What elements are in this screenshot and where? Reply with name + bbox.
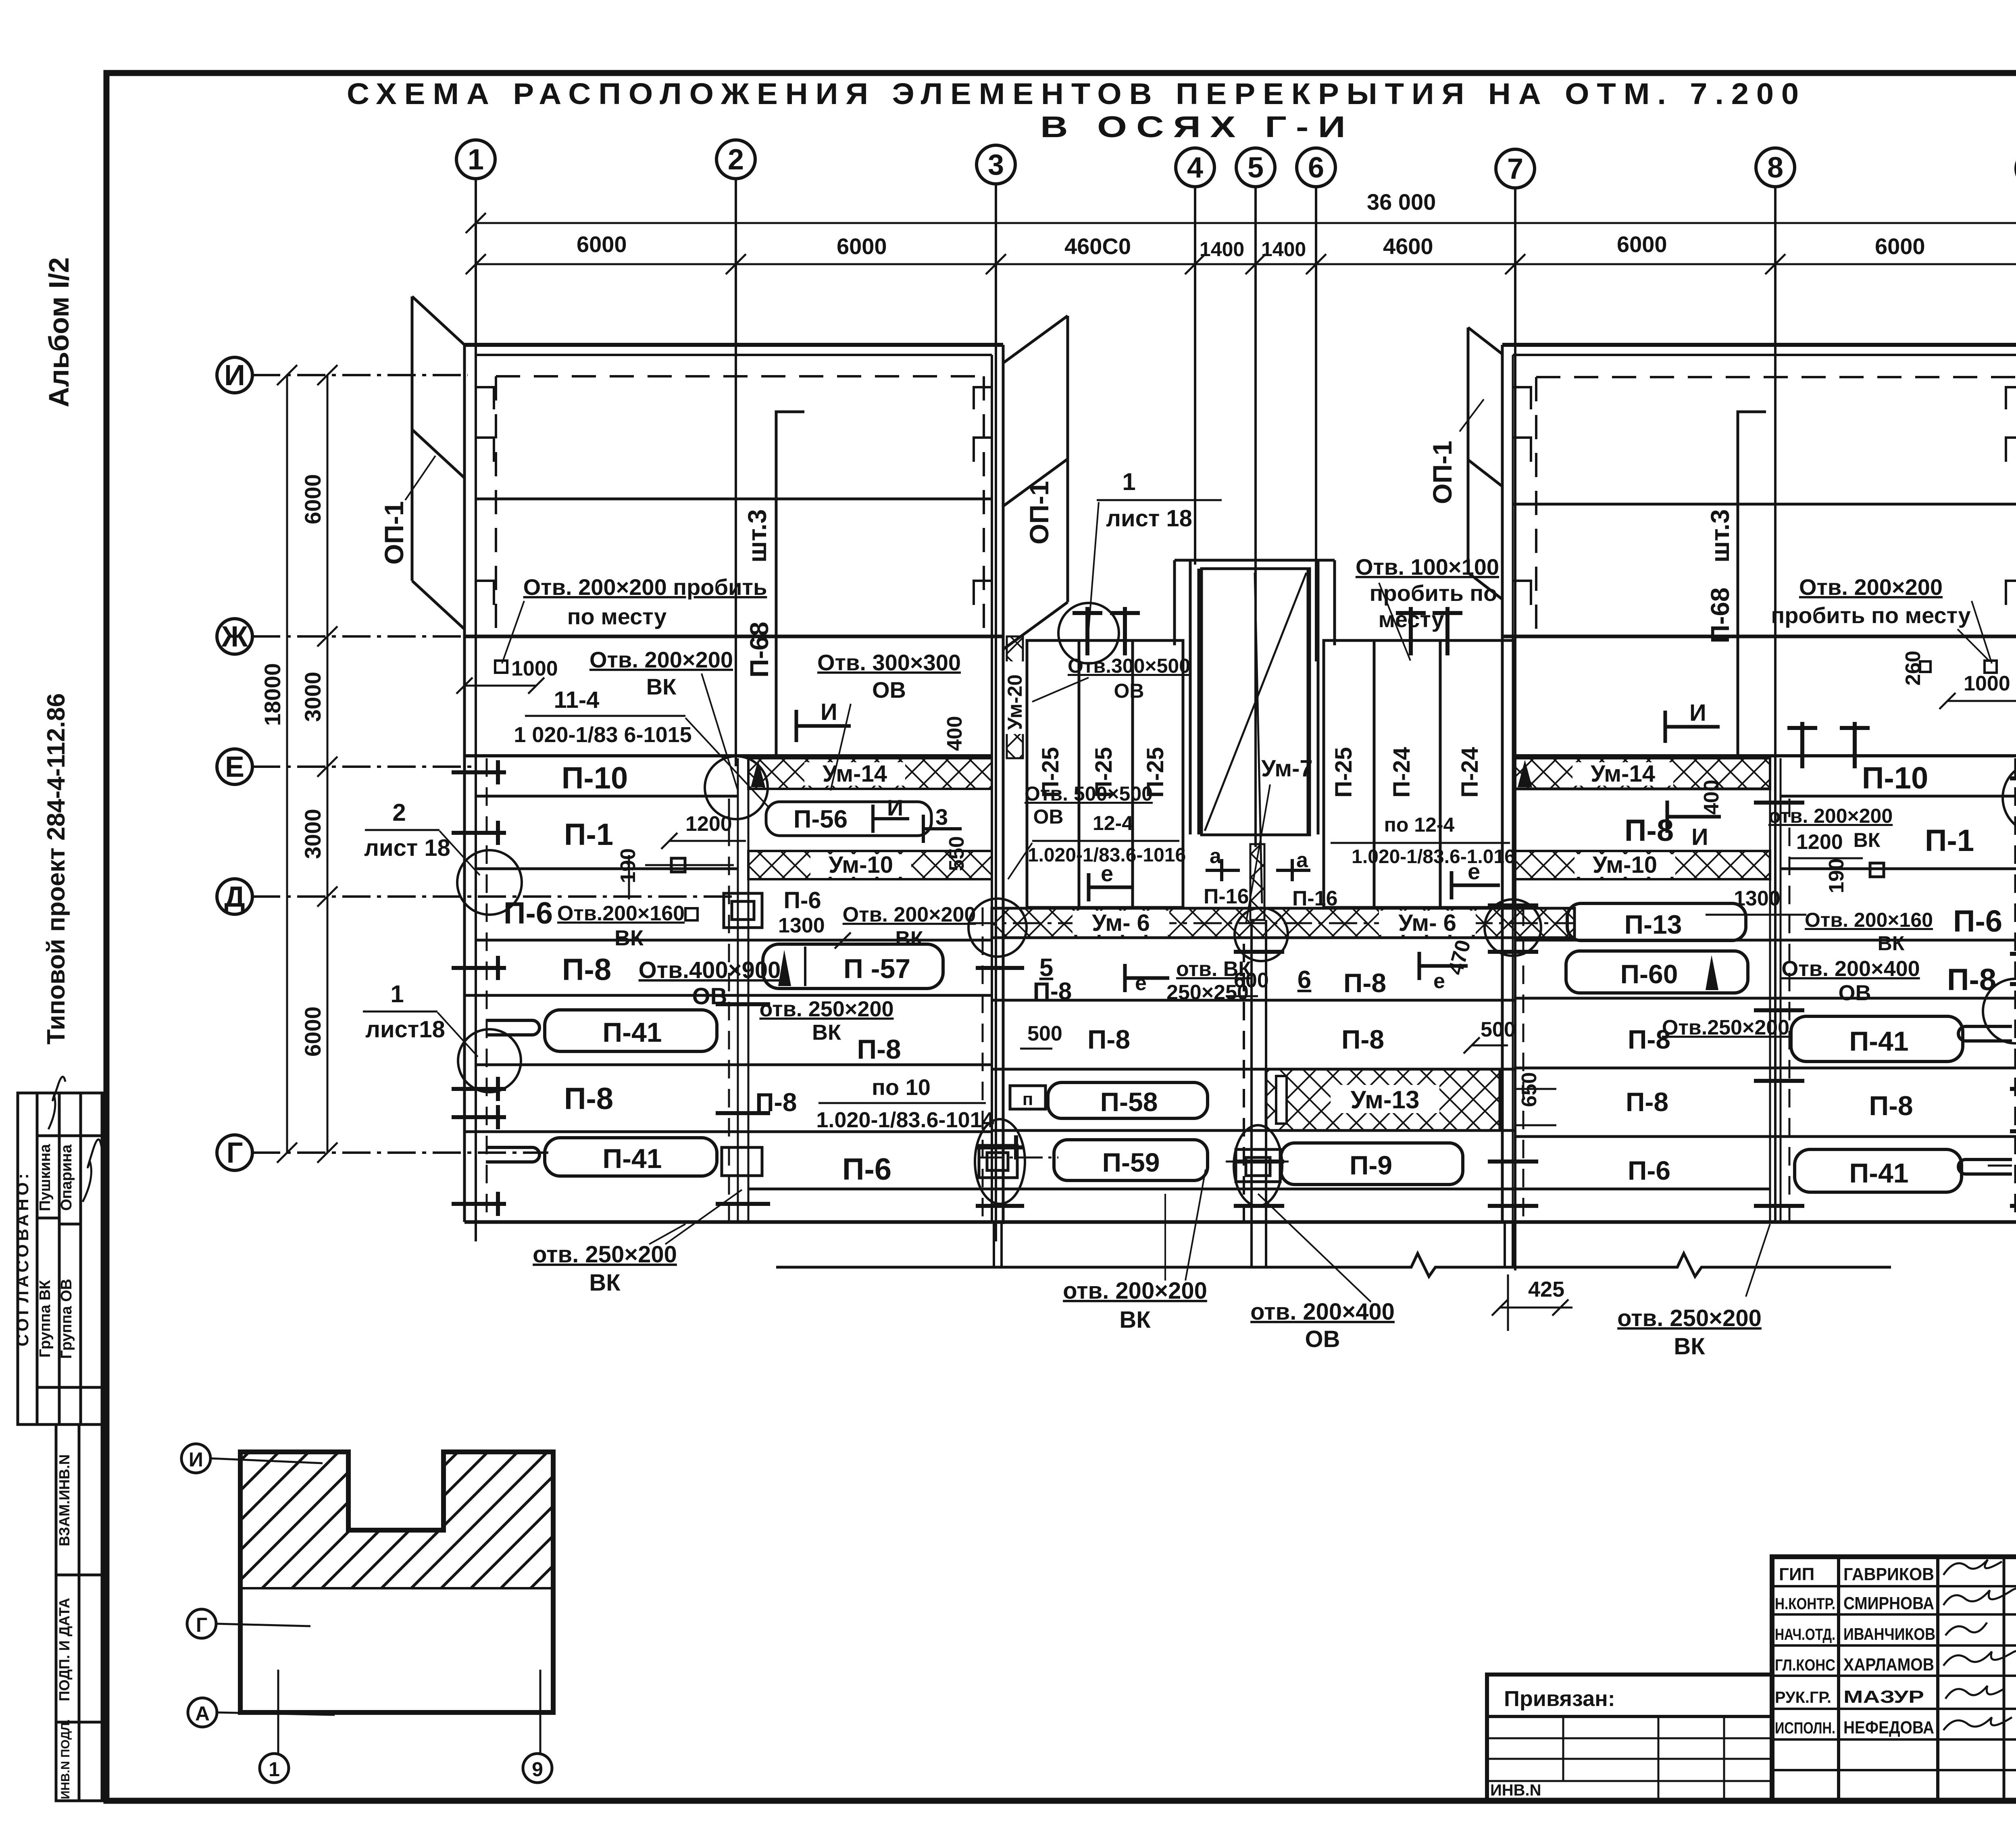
svg-text:6000: 6000	[577, 231, 627, 257]
section mark И left	[796, 710, 851, 742]
detail circle at axis7 Ум-6	[1485, 899, 1541, 956]
svg-text:1400: 1400	[1261, 238, 1306, 261]
svg-text:п: п	[1023, 1089, 1033, 1109]
axis 7 line	[1514, 188, 1516, 1270]
svg-text:П-10: П-10	[562, 761, 628, 795]
svg-text:НЕФЕДОВА: НЕФЕДОВА	[1843, 1718, 1934, 1737]
svg-text:И: И	[821, 699, 837, 725]
name columns	[1837, 1557, 1840, 1801]
svg-text:ОП-1: ОП-1	[1427, 441, 1457, 504]
wall top double	[1502, 343, 2016, 347]
П-68 divider vertical	[1738, 412, 1766, 758]
svg-text:2: 2	[392, 799, 406, 826]
svg-text:И: И	[887, 795, 903, 820]
svg-text:ОВ: ОВ	[1305, 1326, 1340, 1352]
svg-text:Г: Г	[227, 1137, 243, 1169]
axis circle Е	[217, 749, 252, 784]
svg-text:А: А	[195, 1702, 210, 1725]
svg-text:отв. 250×200: отв. 250×200	[533, 1241, 677, 1268]
monolithic strip Ум-10 right	[1515, 851, 1770, 879]
axis Е line	[252, 765, 472, 768]
svg-text:Ум-14: Ум-14	[1591, 761, 1655, 787]
svg-text:Привязан:: Привязан:	[1504, 1687, 1615, 1711]
svg-text:МАЗУР: МАЗУР	[1843, 1687, 1924, 1707]
svg-text:6000: 6000	[837, 234, 887, 259]
svg-text:П-41: П-41	[1849, 1026, 1908, 1057]
opening panel ОП-1 left flap of right wing	[1468, 327, 1502, 599]
overall dimension line 36000	[466, 213, 2016, 233]
svg-text:Отв. 200×160: Отв. 200×160	[1805, 909, 1933, 931]
svg-text:Отв. 200×200: Отв. 200×200	[1799, 574, 1943, 600]
svg-text:Отв. 200×200: Отв. 200×200	[843, 903, 976, 926]
svg-text:1.020-1/83.6-1.016: 1.020-1/83.6-1.016	[1352, 846, 1515, 868]
name rows	[1772, 1585, 2016, 1587]
svg-text:Отв. 200×200: Отв. 200×200	[589, 647, 733, 672]
panel П-60 box	[1566, 951, 1748, 993]
svg-text:П-10: П-10	[1862, 761, 1928, 795]
detail circle at axis1 П-41	[458, 1029, 521, 1092]
svg-text:ВК: ВК	[895, 927, 923, 951]
svg-text:ГАВРИКОВ: ГАВРИКОВ	[1843, 1564, 1934, 1584]
svg-text:И: И	[224, 359, 245, 392]
svg-text:шт.3: шт.3	[743, 509, 772, 563]
vertical segment dimension line	[317, 365, 337, 1163]
svg-text:П-58: П-58	[1100, 1087, 1158, 1117]
axis circle 6	[1297, 148, 1335, 187]
attachment box	[1487, 1675, 1772, 1801]
axis circle 4	[1176, 148, 1214, 187]
svg-text:ГЛ.КОНС: ГЛ.КОНС	[1775, 1656, 1835, 1674]
monolithic strip Ум-6 band	[992, 908, 1574, 938]
wall axis8 double dashed	[1770, 758, 1789, 1222]
svg-text:по 12-4: по 12-4	[1384, 813, 1455, 836]
axis 1 line	[475, 179, 477, 1241]
svg-text:Ум- 6: Ум- 6	[1092, 910, 1150, 936]
svg-text:6000: 6000	[300, 1006, 325, 1057]
detail circle at axis9 П-10	[2003, 762, 2016, 833]
svg-text:1: 1	[468, 144, 484, 176]
left margin lower boxes	[56, 1424, 102, 1801]
svg-text:12-4: 12-4	[1093, 812, 1133, 834]
svg-text:ВК: ВК	[1119, 1307, 1151, 1333]
joint boxes axis2	[722, 893, 762, 1176]
axis circle 5	[1236, 148, 1275, 187]
svg-text:ВК: ВК	[1854, 829, 1881, 851]
svg-text:НАЧ.ОТД.: НАЧ.ОТД.	[1775, 1626, 1835, 1643]
section mark 3 at П-56	[923, 815, 962, 843]
svg-text:ИНВ.N ПОДЛ.: ИНВ.N ПОДЛ.	[59, 1719, 72, 1800]
slab П-16 right + section mark a	[1276, 859, 1310, 881]
axis Г line	[252, 1151, 548, 1154]
key plan axis circle И	[181, 1444, 210, 1473]
svg-text:4: 4	[1187, 152, 1203, 184]
key plan outline	[240, 1452, 553, 1712]
svg-text:СОГЛАСОВАНО:: СОГЛАСОВАНО:	[13, 1170, 32, 1347]
svg-text:П-8: П-8	[1033, 978, 1072, 1005]
svg-text:Отв.250×200: Отв.250×200	[1662, 1016, 1789, 1039]
П-68 divider vertical	[776, 412, 804, 758]
svg-text:Отв. 200×400: Отв. 200×400	[1781, 957, 1920, 981]
axis 5 line	[1254, 187, 1257, 847]
section mark И at П-56	[873, 805, 909, 833]
room bottom line (axis Ж)	[464, 635, 1003, 638]
svg-text:500: 500	[1027, 1022, 1062, 1045]
svg-text:П-6: П-6	[1953, 904, 2002, 938]
svg-text:ВК: ВК	[1878, 932, 1905, 955]
svg-text:Опарина: Опарина	[58, 1144, 75, 1211]
svg-text:И: И	[1691, 824, 1708, 850]
detail circle at axis9 П-41	[1983, 979, 2016, 1043]
svg-text:1000: 1000	[511, 657, 558, 680]
svg-text:400: 400	[1700, 780, 1723, 815]
monolithic strip Ум-13	[1266, 1069, 1500, 1130]
svg-text:П-68: П-68	[1706, 588, 1735, 644]
slab П-9 box	[1281, 1143, 1463, 1185]
svg-text:ВЗАМ.ИНВ.N: ВЗАМ.ИНВ.N	[56, 1454, 73, 1546]
svg-text:П-24: П-24	[1389, 747, 1415, 798]
svg-text:П -57: П -57	[843, 953, 910, 984]
svg-text:ИВАНЧИКОВ: ИВАНЧИКОВ	[1843, 1625, 1935, 1643]
svg-text:7: 7	[1507, 153, 1523, 185]
svg-text:Группа ОВ: Группа ОВ	[58, 1279, 75, 1359]
svg-text:1400: 1400	[1200, 238, 1244, 261]
axis circle 1	[456, 140, 495, 179]
svg-text:П-8: П-8	[1341, 1024, 1384, 1054]
svg-text:П-41: П-41	[602, 1017, 662, 1048]
svg-text:И: И	[189, 1448, 203, 1471]
svg-text:425: 425	[1528, 1277, 1564, 1301]
svg-text:ОВ: ОВ	[872, 677, 906, 703]
svg-text:СХЕМА РАСПОЛОЖЕНИЯ ЭЛЕМЕНТ: СХЕМА РАСПОЛОЖЕНИЯ ЭЛЕМЕНТОВ ПЕРЕКРЫТИЯ …	[347, 77, 1806, 111]
upper room mid line	[1513, 503, 2016, 506]
axis И line	[252, 374, 468, 376]
upper room mid line	[476, 498, 992, 501]
svg-text:ВК: ВК	[646, 674, 677, 699]
svg-text:ОП-1: ОП-1	[1024, 481, 1054, 544]
stair shaft outer walls	[1175, 560, 1335, 834]
svg-text:1300: 1300	[1734, 887, 1781, 910]
svg-text:3000: 3000	[300, 672, 325, 722]
room bottom line (axis Ж)	[1502, 635, 2016, 638]
axis circle 3	[977, 145, 1015, 184]
section mark e right group	[1452, 871, 1500, 899]
svg-text:Альбом I/2: Альбом I/2	[43, 257, 75, 407]
axis circle Ж	[217, 619, 252, 654]
wedge mark at right Ум-14 left end	[1518, 760, 1532, 787]
svg-text:6000: 6000	[1617, 231, 1667, 257]
svg-text:а: а	[1210, 845, 1222, 868]
svg-text:ВК: ВК	[1674, 1333, 1705, 1360]
monolithic strip Ум-14 left	[748, 758, 992, 789]
svg-text:П-1: П-1	[564, 818, 613, 852]
svg-text:Отв. 200×200 пробить: Отв. 200×200 пробить	[523, 574, 767, 600]
svg-text:Ум- 6: Ум- 6	[1398, 910, 1456, 936]
slab П-58 box	[1048, 1082, 1208, 1118]
svg-text:460C0: 460C0	[1064, 234, 1131, 259]
axis Д line	[252, 895, 738, 898]
anchors wall axis2	[716, 1004, 770, 1204]
svg-text:6: 6	[1308, 152, 1324, 184]
svg-text:е: е	[1135, 972, 1147, 995]
svg-text:П-8: П-8	[1869, 1091, 1913, 1121]
svg-text:П-25: П-25	[1331, 747, 1357, 798]
svg-text:е: е	[1433, 970, 1445, 993]
axis circle Г	[217, 1135, 252, 1170]
svg-text:П-1: П-1	[1925, 824, 1974, 858]
panel П-57 box	[763, 944, 943, 989]
panel П-41 box upper	[545, 1010, 717, 1051]
lower tail line with break marks	[776, 1253, 1891, 1276]
anchors wall axis8	[1754, 803, 1804, 1206]
svg-text:ИСПОЛН.: ИСПОЛН.	[1775, 1719, 1835, 1737]
svg-text:260: 260	[1901, 651, 1925, 686]
axis 6 line	[1315, 187, 1317, 661]
svg-text:ВК: ВК	[812, 1020, 841, 1045]
svg-text:е: е	[1468, 859, 1480, 884]
svg-text:РУК.ГР.: РУК.ГР.	[1775, 1689, 1831, 1706]
panel П-41 box lower right	[1795, 1149, 1962, 1192]
section mark e + 470	[1419, 952, 1468, 980]
stamp signatures	[1943, 1560, 2016, 1730]
detail circle at axis1/Д	[457, 850, 522, 915]
svg-text:отв. 200×200: отв. 200×200	[1768, 805, 1893, 827]
detail ellipse at axis3 Г joint	[975, 1119, 1025, 1204]
detail circle at axis3 Ум-6	[968, 899, 1027, 957]
svg-text:1300: 1300	[778, 914, 825, 937]
svg-text:пробить по месту: пробить по месту	[1771, 603, 1970, 628]
svg-text:1: 1	[390, 980, 404, 1007]
svg-text:П-6: П-6	[504, 896, 553, 930]
wall axis1 outer double	[463, 345, 466, 1222]
svg-text:6000: 6000	[1875, 234, 1925, 259]
stair shaft inner opening	[1202, 569, 1310, 835]
wall axis3 double	[991, 355, 993, 1222]
wall top double	[464, 343, 1003, 347]
svg-text:лист 18: лист 18	[364, 835, 450, 861]
slab П-25 group left	[1027, 640, 1183, 907]
svg-text:отв. 200×200: отв. 200×200	[1063, 1278, 1207, 1304]
svg-text:9: 9	[532, 1758, 543, 1781]
axis 2 line	[735, 179, 737, 766]
svg-text:Ум-10: Ум-10	[1593, 852, 1657, 878]
axis circle 7	[1496, 149, 1535, 188]
svg-text:190: 190	[1825, 858, 1848, 893]
svg-text:Группа ВК: Группа ВК	[37, 1280, 54, 1358]
svg-text:П-56: П-56	[793, 805, 848, 833]
center wall axis5 double	[1244, 920, 1266, 1268]
svg-text:Отв.200×160: Отв.200×160	[557, 902, 685, 925]
detail circle at axis2 top	[705, 756, 768, 819]
stamp outer	[1772, 1557, 2016, 1801]
svg-text:3: 3	[935, 804, 948, 830]
dashed bearing line axis7	[1522, 907, 1524, 1222]
svg-text:П-8: П-8	[1626, 1087, 1668, 1117]
joint box axis3 at Г	[979, 1145, 1017, 1178]
svg-text:И: И	[1689, 700, 1706, 726]
key plan axis circle 9	[523, 1754, 552, 1783]
section mark И right pair	[1665, 711, 1720, 743]
svg-text:Ум-13: Ум-13	[1351, 1086, 1420, 1114]
key plan axis circle 1	[260, 1754, 289, 1783]
svg-text:ОВ: ОВ	[1839, 981, 1871, 1005]
svg-text:400: 400	[943, 716, 966, 751]
slab П-16 left + section mark a	[1206, 859, 1240, 881]
monolithic strip Ум-20 vertical	[1007, 636, 1023, 758]
svg-text:550: 550	[945, 836, 968, 871]
svg-text:П-41: П-41	[1849, 1158, 1908, 1189]
svg-text:Отв.400×900: Отв.400×900	[639, 957, 781, 983]
stub connectors П-41 left	[486, 1020, 539, 1162]
svg-text:3: 3	[988, 149, 1004, 181]
detail ellipse at axis5 Г joint	[1234, 1125, 1282, 1206]
svg-text:1000: 1000	[1964, 672, 2010, 695]
svg-text:Г: Г	[196, 1614, 207, 1636]
svg-text:Е: Е	[225, 751, 244, 783]
svg-text:Отв. 100×100: Отв. 100×100	[1356, 554, 1499, 580]
key plan hatched upper band	[240, 1452, 553, 1588]
axis circle 8	[1756, 148, 1795, 187]
monolithic strip Ум-10 left	[748, 851, 992, 879]
svg-text:ХАРЛАМОВ: ХАРЛАМОВ	[1843, 1655, 1934, 1675]
axis Ж line	[252, 635, 468, 638]
wedge mark at Ум-14 left end	[751, 760, 765, 787]
corner bracket marks upper rooms	[476, 387, 2016, 605]
svg-text:е: е	[1101, 861, 1113, 886]
dashed bearing line axis9 inner	[2014, 758, 2016, 1222]
svg-text:отв. 200×400: отв. 200×400	[1250, 1299, 1395, 1325]
svg-text:ВК: ВК	[589, 1270, 621, 1296]
svg-text:П-60: П-60	[1620, 959, 1678, 989]
anchors center wall axis5	[1234, 952, 1284, 1206]
svg-text:3000: 3000	[300, 809, 325, 859]
svg-text:ПОДП. И ДАТА: ПОДП. И ДАТА	[56, 1598, 73, 1701]
left margin approval stamp	[18, 1093, 102, 1424]
svg-text:лист18: лист18	[365, 1016, 445, 1043]
svg-text:П-8: П-8	[1087, 1024, 1130, 1054]
opening panel ОП-1 right flap of left wing	[1003, 316, 1068, 649]
monolithic strip Ум-14 right	[1515, 758, 1770, 789]
stub connectors П-41 right	[1958, 1026, 2012, 1174]
panel П-56 box	[766, 802, 931, 836]
anchors left wall axis1	[452, 760, 506, 1216]
anchors wall axis9	[2010, 766, 2016, 1218]
svg-text:П-16: П-16	[1292, 887, 1338, 910]
svg-text:1200: 1200	[1796, 830, 1843, 854]
panel П-41 box lower	[545, 1138, 717, 1176]
extra leader lines bottom notes	[649, 1194, 1770, 1297]
slab П-59 box	[1054, 1140, 1208, 1180]
detail circle at shaft top anchor	[1058, 603, 1119, 663]
svg-text:6: 6	[1297, 966, 1311, 994]
svg-text:8: 8	[1767, 152, 1783, 184]
svg-text:18000: 18000	[260, 663, 285, 726]
svg-text:1 020-1/83 6-1015: 1 020-1/83 6-1015	[514, 723, 691, 747]
center row lines	[992, 1000, 1515, 1222]
right wing row lines	[1502, 756, 2016, 1222]
opening panel ОП-1 left flap	[412, 296, 464, 629]
svg-text:П-9: П-9	[1350, 1150, 1392, 1180]
svg-text:П-8: П-8	[857, 1034, 901, 1065]
svg-text:ИНВ.N: ИНВ.N	[1490, 1781, 1541, 1799]
svg-text:Н.КОНТР.: Н.КОНТР.	[1775, 1595, 1835, 1613]
svg-text:П-68: П-68	[745, 622, 774, 678]
svg-text:шт.3: шт.3	[1706, 509, 1735, 563]
dim 125 small	[685, 908, 698, 920]
svg-text:П-8: П-8	[564, 1082, 613, 1116]
svg-text:Отв.300×500: Отв.300×500	[1068, 655, 1190, 677]
anchors wall axis3	[976, 968, 1024, 1206]
svg-text:11-4: 11-4	[554, 687, 600, 713]
upper room dashed inset	[1536, 376, 2016, 378]
svg-text:ОВ: ОВ	[1033, 805, 1064, 828]
segment dimension line	[466, 254, 2016, 274]
detail circle at axis5 Ум-6	[1235, 908, 1288, 961]
vertical dimension line 18000	[277, 365, 297, 1163]
svg-text:П-6: П-6	[783, 887, 821, 913]
left wing row lines	[464, 756, 1003, 1222]
svg-text:36 000: 36 000	[1367, 189, 1436, 215]
svg-text:а: а	[1296, 849, 1308, 872]
svg-text:Ум-20: Ум-20	[1004, 674, 1026, 730]
key plan Г line	[240, 1587, 553, 1589]
svg-text:ВК: ВК	[614, 926, 644, 950]
wall stubs to lower tail line	[994, 1222, 1513, 1267]
svg-text:Пушкина: Пушкина	[37, 1144, 54, 1211]
svg-text:лист 18: лист 18	[1106, 505, 1192, 532]
svg-text:пробить по: пробить по	[1370, 580, 1497, 606]
wall axis2 double dashed	[729, 758, 748, 1222]
svg-text:П-59: П-59	[1102, 1147, 1160, 1177]
axis circle Д	[217, 879, 252, 914]
svg-text:отв. 250×200: отв. 250×200	[1617, 1305, 1762, 1331]
svg-text:П-8: П-8	[562, 953, 611, 987]
svg-text:4600: 4600	[1383, 234, 1433, 259]
upper room dashed inset	[496, 375, 984, 377]
svg-text:600: 600	[1234, 969, 1269, 992]
section mark e left group	[1089, 873, 1133, 901]
svg-text:1.020-1/83.6-1014: 1.020-1/83.6-1014	[816, 1108, 994, 1132]
svg-text:Отв. 300×300: Отв. 300×300	[817, 650, 961, 675]
svg-text:по месту: по месту	[567, 604, 667, 629]
axis 3 line	[995, 184, 997, 1241]
svg-text:6000: 6000	[300, 474, 325, 524]
svg-text:СМИРНОВА: СМИРНОВА	[1843, 1593, 1934, 1613]
svg-text:500: 500	[1481, 1018, 1516, 1041]
svg-text:Ж: Ж	[221, 621, 248, 653]
panel П-13 box	[1567, 903, 1746, 941]
svg-text:1: 1	[269, 1758, 280, 1781]
svg-text:5: 5	[1248, 152, 1264, 184]
svg-text:ГИП: ГИП	[1779, 1564, 1814, 1584]
hatched post strip between П-16	[1250, 844, 1264, 920]
panel П-41 box upper right	[1791, 1016, 1963, 1062]
svg-text:1: 1	[1122, 468, 1135, 495]
dashed bearing line axis3	[982, 907, 984, 1222]
svg-text:П-6: П-6	[1628, 1155, 1670, 1185]
svg-text:2: 2	[728, 144, 744, 176]
svg-text:Ум-7: Ум-7	[1261, 755, 1313, 782]
key plan axis circle А	[188, 1698, 217, 1727]
axis circle 2	[716, 140, 755, 179]
section mark e + отв.ВК 250х250	[1125, 964, 1169, 992]
svg-text:Ум-10: Ум-10	[829, 852, 893, 878]
axis 8 line	[1774, 187, 1776, 1222]
svg-text:по 10: по 10	[872, 1074, 931, 1100]
axis 4 line	[1194, 187, 1196, 565]
axis circle И	[217, 357, 252, 393]
svg-text:П-6: П-6	[842, 1152, 891, 1187]
svg-text:П-16: П-16	[1204, 885, 1249, 908]
